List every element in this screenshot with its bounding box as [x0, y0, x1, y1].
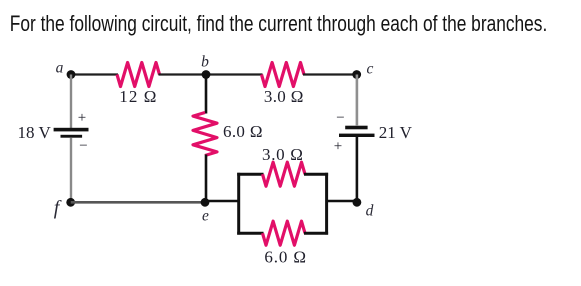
wire b to R2	[206, 73, 263, 75]
resistor R4 3.0 ohm	[263, 162, 306, 186]
wire b to R3	[205, 75, 208, 114]
svg-text:b: b	[201, 54, 209, 71]
node e	[201, 198, 210, 207]
battery B2 21V negative plate	[345, 126, 367, 130]
svg-text:−: −	[336, 110, 344, 126]
wire B1 to f	[70, 138, 72, 203]
svg-text:c: c	[367, 61, 374, 78]
resistor R1 12 ohm	[117, 63, 160, 87]
battery B2 21V positive plate	[339, 134, 375, 137]
wire B2 to c	[356, 75, 359, 127]
svg-text:−: −	[79, 138, 87, 154]
wire parallel box to d	[327, 200, 357, 203]
svg-text:For the following circuit, fin: For the following circuit, find the curr…	[10, 11, 548, 36]
parallel box bottom edge left	[237, 232, 263, 235]
svg-text:f: f	[54, 197, 62, 219]
resistor R2 3.0 ohm	[262, 63, 305, 87]
svg-text:3.0 Ω: 3.0 Ω	[264, 87, 304, 106]
wire e to parallel box	[205, 200, 240, 203]
svg-text:21 V: 21 V	[379, 123, 413, 142]
battery B1 18V negative plate	[61, 135, 83, 138]
svg-text:e: e	[202, 208, 209, 225]
svg-text:6.0 Ω: 6.0 Ω	[264, 248, 306, 267]
wire R2 to c	[303, 73, 357, 75]
wire a to battery B1	[70, 75, 72, 129]
svg-text:+: +	[78, 110, 86, 126]
node c	[352, 70, 361, 79]
resistor R3 6.0 ohm vertical	[193, 113, 217, 156]
svg-text:a: a	[56, 60, 64, 77]
wire a to R1	[71, 73, 118, 75]
parallel box top edge left	[237, 173, 263, 176]
svg-text:6.0 Ω: 6.0 Ω	[223, 122, 263, 141]
svg-text:12 Ω: 12 Ω	[119, 87, 156, 106]
node d	[353, 198, 362, 207]
svg-text:18 V: 18 V	[18, 123, 52, 142]
svg-text:3.0 Ω: 3.0 Ω	[262, 145, 303, 164]
wire d to battery B2	[356, 137, 359, 202]
parallel box top edge right	[304, 173, 328, 176]
battery B1 18V positive plate	[54, 128, 89, 132]
node b	[202, 70, 211, 79]
svg-text:d: d	[366, 203, 374, 220]
parallel box right edge	[325, 173, 328, 235]
wire f to e	[71, 201, 205, 204]
wire R1 to b	[159, 73, 207, 75]
resistor R5 6.0 ohm	[263, 221, 306, 245]
parallel box bottom edge right	[304, 232, 328, 235]
svg-text:+: +	[334, 139, 342, 155]
parallel box left edge	[237, 173, 240, 235]
wire R3 to e	[205, 155, 208, 203]
node a	[67, 70, 76, 79]
node f	[66, 198, 75, 207]
